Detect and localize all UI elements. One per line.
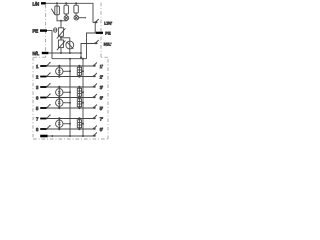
wire ground bus x83 [82,59,84,136]
wire row 2 [47,76,94,78]
disconnector blade at F1 [51,9,55,15]
thermal disconnector theta [54,28,57,32]
enclosure border bottom-left vertical [32,57,34,139]
resistor Rb [64,3,68,16]
terminal L/N [41,2,46,4]
spark gap F2 [66,38,74,53]
svg-text:PE: PE [33,29,39,34]
terminal arrow L'/N' [93,19,99,23]
wire PE to rail [47,31,52,59]
wire row 6 [47,97,94,99]
node N/L varistor [60,52,62,54]
node varistor bottom [60,37,62,39]
wire PE rail [52,58,87,60]
svg-text:6': 6' [100,95,103,100]
node bus-Rc [75,2,77,4]
svg-text:1': 1' [100,64,103,69]
node rail x83 [82,58,84,60]
suppressor diode D3 [77,96,84,109]
enclosure border bottom-right vertical [107,57,109,139]
svg-text:L'/N': L'/N' [104,20,112,25]
wire N/L up to output [81,44,95,54]
node rail x70 [69,58,71,60]
wire row 8 [47,128,94,130]
terminal arrow N'/L' [95,40,99,44]
svg-text:N'/L': N'/L' [104,41,112,46]
varistor MOV2 [57,38,66,53]
node bus-F1 [56,2,58,4]
svg-text:5: 5 [36,106,39,111]
svg-text:5': 5' [100,106,103,111]
node N/L corner [80,52,82,54]
varistor MOV1 [57,21,66,39]
wire ground rail [48,135,94,137]
wire PE' left and down to rail [87,33,96,59]
svg-text:2: 2 [36,74,39,79]
terminal arrow row 8 right + label [93,126,97,130]
suppressor diode D2 [77,86,84,99]
svg-text:1: 1 [36,64,39,69]
wire row 1 [47,65,94,67]
wire N/L row [48,52,81,54]
terminal arrow row 5 right + label [93,105,97,109]
enclosure border top-right vertical [100,2,102,57]
resistor Rc [74,3,78,15]
svg-text:8': 8' [100,127,103,132]
wire row 7 [47,118,94,120]
terminal PE [40,29,47,31]
node ground x52 [51,135,53,137]
terminal arrow row 2 right + label [93,73,97,77]
enclosure border bottom edge [33,138,108,140]
terminal arrow row 6 right + label [93,94,97,98]
wire node to arrester [61,37,70,39]
svg-text:6: 6 [36,95,39,100]
svg-text:8: 8 [36,127,39,132]
fuse F1 [55,3,60,17]
gas discharge tube G2 [56,86,71,99]
wire L/N top bus [46,3,93,22]
svg-text:PE: PE [105,31,111,36]
terminal ground/shield [40,135,47,138]
wire ground bus x70 [69,59,71,136]
wire row 5 [47,107,94,109]
svg-text:L/N: L/N [33,2,40,7]
node A junction [60,20,62,22]
enclosure border top-left vertical [45,5,47,57]
terminal arrow row 3 right + label [93,84,97,88]
terminal arrow row 7 right + label [93,115,97,119]
suppressor diode D4 [77,117,84,130]
wire x81 stub to rail [80,53,82,59]
terminal PE' [96,32,103,34]
svg-text:7: 7 [36,116,39,121]
enclosure border left step [33,56,46,58]
svg-text:3: 3 [36,85,39,90]
gas discharge tube G4 [56,117,71,130]
wire row 3 [47,86,94,88]
wire F1 bottom to node A [57,17,61,21]
wire link L-arrow to PE bar [94,23,96,33]
enclosure border right step [101,56,108,58]
suppressor diode D1 [77,65,84,78]
node x81 rail [80,56,82,58]
svg-text:7': 7' [100,116,103,121]
node bus-Rb [65,2,67,4]
node N/L arrester [69,52,71,54]
gas discharge tube G1 [56,65,71,78]
indicator lamp P2 [74,15,86,20]
node ground x83 [82,135,84,137]
gas discharge tube G3 [56,96,71,109]
terminal arrow row 1 right + label [93,63,97,67]
svg-text:N/L: N/L [33,51,40,56]
indicator lamp P1 [61,16,69,21]
terminal N/L [42,52,49,54]
node ground x70 [69,135,71,137]
svg-text:2': 2' [100,74,103,79]
svg-text:3': 3' [100,85,103,90]
terminal arrow ground right [93,133,97,137]
